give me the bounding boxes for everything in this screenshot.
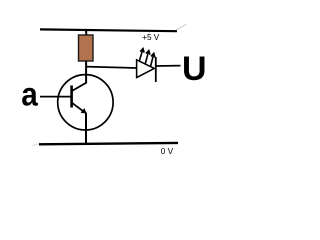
svg-text:+5 V: +5 V (142, 33, 160, 42)
svg-text:U: U (182, 50, 207, 88)
svg-text:0 V: 0 V (161, 147, 174, 156)
svg-text:a: a (21, 75, 38, 112)
